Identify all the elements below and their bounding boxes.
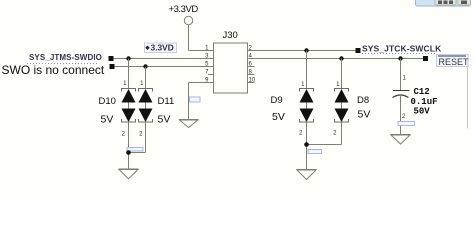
directive box — [190, 97, 201, 102]
wire pin1 to +3.3VD — [189, 50, 214, 52]
svg-text:2: 2 — [402, 114, 406, 120]
connector J30 — [205, 30, 256, 93]
net label +3.3VD — [145, 42, 177, 52]
directive box — [308, 150, 322, 154]
wire SWDIO pin3 — [114, 58, 214, 60]
svg-text:0.1uF: 0.1uF — [411, 97, 438, 107]
junction — [304, 142, 309, 147]
ground (pin9) — [179, 120, 198, 128]
wire pin4 RESET — [248, 58, 424, 60]
svg-text:1: 1 — [140, 81, 144, 87]
text SWO is no connect — [2, 63, 115, 77]
port RESET — [423, 55, 469, 68]
svg-text:RESET: RESET — [439, 57, 470, 67]
sheet edge line right — [467, 58, 469, 129]
wire D9/D8 to ground — [307, 122, 342, 170]
ground (D10/D11) — [119, 169, 139, 179]
svg-text:2: 2 — [122, 132, 126, 138]
diode D10 — [99, 59, 136, 138]
wire SWO pin5 — [115, 66, 214, 68]
junction — [143, 64, 147, 68]
directive box — [127, 148, 143, 152]
junction — [339, 56, 343, 60]
junction — [126, 150, 131, 155]
svg-text:J30: J30 — [223, 30, 238, 41]
svg-text:1: 1 — [301, 82, 305, 88]
diode D9 — [271, 51, 314, 137]
svg-text:5V: 5V — [272, 111, 285, 123]
toolbar fragment top-right — [416, 0, 471, 6]
wire pin2 SWCLK — [248, 50, 356, 52]
svg-text:2: 2 — [139, 132, 143, 138]
svg-text:5V: 5V — [358, 109, 371, 121]
svg-text:5V: 5V — [101, 114, 114, 126]
svg-text:3.3VD: 3.3VD — [151, 42, 174, 52]
svg-text:1: 1 — [336, 82, 340, 88]
port SYS_JTCK-SWCLK — [356, 43, 443, 53]
wire D10/D11 to ground — [129, 122, 146, 169]
junction — [304, 48, 308, 52]
svg-text:2: 2 — [299, 130, 303, 136]
svg-text:D8: D8 — [357, 95, 369, 106]
svg-text:SYS_JTMS-SWDIO: SYS_JTMS-SWDIO — [29, 53, 102, 62]
junction — [398, 56, 402, 60]
svg-text:D11: D11 — [158, 96, 175, 107]
svg-text:2: 2 — [333, 130, 337, 136]
diode D11 — [139, 67, 175, 138]
wire pin9 to ground — [189, 83, 214, 120]
ground (C12) — [391, 135, 411, 145]
svg-text:+3.3VD: +3.3VD — [169, 4, 199, 15]
svg-text:D10: D10 — [99, 96, 116, 107]
diode D8 — [333, 59, 370, 137]
svg-text:10: 10 — [249, 78, 256, 84]
svg-text:1: 1 — [403, 76, 407, 82]
capacitor C12 — [393, 59, 438, 135]
port SYS_JTMS-SWDIO — [27, 53, 114, 64]
ground (D9/D8) — [297, 170, 317, 180]
svg-text:D9: D9 — [271, 95, 283, 106]
svg-text:1: 1 — [123, 81, 127, 87]
svg-text:SWO is no connect: SWO is no connect — [2, 63, 105, 77]
svg-text:SYS_JTCK-SWCLK: SYS_JTCK-SWCLK — [362, 43, 442, 53]
svg-text:C12: C12 — [414, 87, 430, 97]
power +3.3VD — [169, 4, 199, 51]
svg-text:50V: 50V — [414, 107, 431, 117]
junction — [126, 56, 130, 60]
svg-text:5V: 5V — [158, 114, 171, 126]
directive box — [398, 122, 415, 126]
